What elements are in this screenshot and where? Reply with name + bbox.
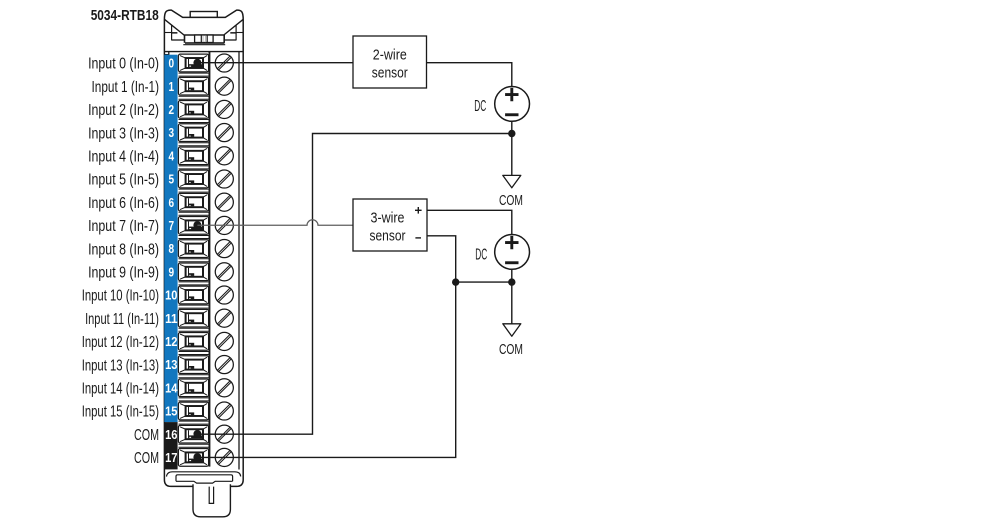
terminal 8 connector xyxy=(178,240,208,258)
terminal 12 screw xyxy=(215,332,233,350)
svg-text:9: 9 xyxy=(169,264,175,279)
svg-text:3-wire: 3-wire xyxy=(371,210,405,227)
3-wire sensor box xyxy=(353,199,427,251)
svg-text:17: 17 xyxy=(165,450,177,465)
wire terminal 0 to 2-wire sensor xyxy=(197,62,353,64)
svg-text:15: 15 xyxy=(165,404,177,419)
svg-text:3: 3 xyxy=(169,125,175,140)
terminal 0 connector xyxy=(178,54,208,72)
svg-text:1: 1 xyxy=(169,79,175,94)
latch right pocket xyxy=(224,26,243,41)
latch left post xyxy=(184,35,186,43)
terminal 6 screw xyxy=(215,193,233,211)
terminal 5 connector xyxy=(178,170,208,188)
svg-text:Input 8 (In-8): Input 8 (In-8) xyxy=(88,241,159,258)
wire junction link to DC2 minus xyxy=(456,281,512,283)
latch wing lower edge xyxy=(165,19,244,35)
right inner wall line xyxy=(238,52,240,470)
svg-text:Input 14 (In-14): Input 14 (In-14) xyxy=(82,381,159,398)
COM arrow 1 xyxy=(503,175,521,187)
svg-text:5034-RTB18: 5034-RTB18 xyxy=(91,7,159,24)
terminal 16 connector xyxy=(178,425,208,443)
svg-text:2-wire: 2-wire xyxy=(373,47,407,64)
svg-text:Input 10 (In-10): Input 10 (In-10) xyxy=(82,288,159,305)
terminal number strip blue (0-15) xyxy=(164,55,177,422)
svg-text:4: 4 xyxy=(169,148,175,163)
3-wire sensor minus pin mark xyxy=(415,237,421,238)
terminal 15 screw xyxy=(215,402,233,420)
svg-text:COM: COM xyxy=(499,193,523,209)
svg-text:Input 2 (In-2): Input 2 (In-2) xyxy=(88,102,159,119)
svg-text:Input 5 (In-5): Input 5 (In-5) xyxy=(88,172,159,189)
bottom tongue xyxy=(193,484,230,517)
latch left pocket xyxy=(165,26,184,41)
wire 3-wire plus to DC2 xyxy=(427,210,512,235)
svg-text:COM: COM xyxy=(499,342,523,358)
svg-text:Input 15 (In-15): Input 15 (In-15) xyxy=(82,404,159,421)
terminal 1 screw xyxy=(215,77,233,95)
node DC2 minus junction xyxy=(508,278,515,285)
DC source 2 xyxy=(495,235,530,270)
terminal 0 screw xyxy=(215,54,233,72)
terminal 13 screw xyxy=(215,356,233,374)
terminal 17 connector xyxy=(178,449,208,467)
svg-text:16: 16 xyxy=(165,427,177,442)
2-wire sensor box xyxy=(353,36,427,88)
wire terminal 7 to 3-wire sensor (signal, gray) with hop xyxy=(197,220,353,225)
svg-text:6: 6 xyxy=(169,195,175,210)
terminal 13 connector xyxy=(178,356,208,374)
svg-text:COM: COM xyxy=(134,450,159,467)
terminal 8 screw xyxy=(215,240,233,258)
svg-text:10: 10 xyxy=(165,288,177,303)
svg-text:DC: DC xyxy=(475,247,487,264)
svg-text:13: 13 xyxy=(165,357,177,372)
latch right post xyxy=(223,35,225,43)
terminal number strip black (16-17) xyxy=(164,422,177,469)
svg-text:Input 3 (In-3): Input 3 (In-3) xyxy=(88,125,159,142)
terminal 5 screw xyxy=(215,170,233,188)
terminal 12 connector xyxy=(178,333,208,351)
svg-text:Input 13 (In-13): Input 13 (In-13) xyxy=(82,357,159,374)
svg-text:Input 7 (In-7): Input 7 (In-7) xyxy=(88,218,159,235)
terminal 10 connector xyxy=(178,286,208,304)
wire DC2 minus down to COM xyxy=(511,269,513,324)
COM arrow 2 xyxy=(503,324,521,336)
terminal 3 screw xyxy=(215,124,233,142)
terminal 10 screw xyxy=(215,286,233,304)
terminal 2 screw xyxy=(215,100,233,118)
svg-text:sensor: sensor xyxy=(372,65,408,82)
bottom front face line xyxy=(167,472,241,477)
wire DC1 minus down to COM xyxy=(511,121,513,175)
DC source 1 xyxy=(495,87,530,122)
svg-text:Input 9 (In-9): Input 9 (In-9) xyxy=(88,265,159,282)
left step above number strip xyxy=(164,52,168,55)
svg-text:14: 14 xyxy=(165,380,178,395)
terminal 4 screw xyxy=(215,147,233,165)
wire DC1 junction to terminal 16 xyxy=(197,134,511,435)
svg-text:sensor: sensor xyxy=(370,228,406,245)
connector row separators xyxy=(179,73,209,447)
terminal 7 screw xyxy=(215,216,233,234)
svg-text:11: 11 xyxy=(165,311,177,326)
wire 2-wire sensor to DC1 plus xyxy=(427,63,512,87)
svg-text:Input 1 (In-1): Input 1 (In-1) xyxy=(92,79,160,96)
housing line under latch xyxy=(164,51,243,53)
svg-text:Input 4 (In-4): Input 4 (In-4) xyxy=(88,149,159,166)
tongue slot xyxy=(209,487,213,504)
terminal 1 connector xyxy=(178,77,208,95)
latch base plate xyxy=(183,42,225,45)
terminal 9 screw xyxy=(215,263,233,281)
terminal 16 screw xyxy=(215,425,233,443)
terminal 2 connector xyxy=(178,101,208,119)
latch top tab xyxy=(190,12,217,18)
terminal 7 connector xyxy=(178,217,208,235)
wire 3-wire minus to terminal 17 xyxy=(197,236,455,458)
svg-text:Input 12 (In-12): Input 12 (In-12) xyxy=(82,334,159,351)
node minus junction xyxy=(452,278,459,285)
terminal 11 screw xyxy=(215,309,233,327)
svg-text:Input 11 (In-11): Input 11 (In-11) xyxy=(85,311,159,328)
latch center ridged block xyxy=(195,35,214,43)
terminal 14 screw xyxy=(215,379,233,397)
terminal 17 screw xyxy=(215,448,233,466)
terminal 9 connector xyxy=(178,263,208,281)
svg-text:Input 0 (In-0): Input 0 (In-0) xyxy=(88,56,159,73)
terminal 3 connector xyxy=(178,124,208,142)
svg-text:5: 5 xyxy=(169,172,175,187)
module 5034-RTB18 housing outline xyxy=(164,10,243,486)
3-wire sensor plus pin mark xyxy=(415,207,422,214)
terminal block right rail xyxy=(209,52,211,467)
terminal 6 connector xyxy=(178,193,208,211)
bottom groove xyxy=(176,475,233,483)
svg-text:0: 0 xyxy=(169,56,175,71)
svg-text:Input 6 (In-6): Input 6 (In-6) xyxy=(88,195,159,212)
svg-text:COM: COM xyxy=(134,427,159,444)
svg-text:12: 12 xyxy=(165,334,177,349)
svg-text:8: 8 xyxy=(169,241,175,256)
svg-text:7: 7 xyxy=(169,218,175,233)
terminal 11 connector xyxy=(178,309,208,327)
terminal 15 connector xyxy=(178,402,208,420)
terminal 4 connector xyxy=(178,147,208,165)
svg-text:2: 2 xyxy=(169,102,175,117)
terminal 14 connector xyxy=(178,379,208,397)
svg-text:DC: DC xyxy=(474,98,486,115)
node DC1 minus junction xyxy=(508,130,515,137)
